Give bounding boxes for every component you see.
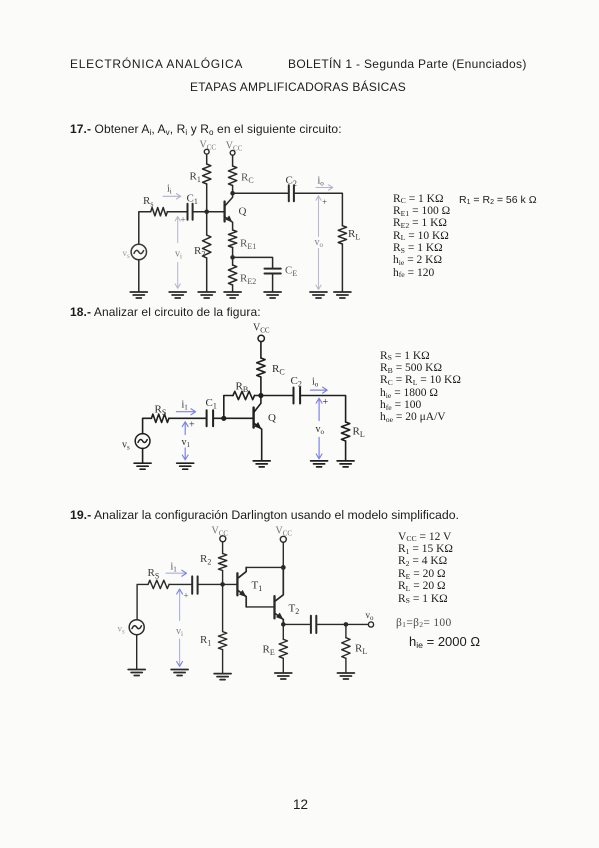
label vs [123,248,131,260]
svg-text:vo: vo [366,610,375,622]
svg-text:+: + [189,420,195,431]
label RS 18 [155,404,167,418]
label Vcc 2 [226,141,243,153]
node rail [281,565,286,570]
arrow vo [316,196,321,290]
value label R1 = 15 KOhm [398,543,453,555]
label vo 18 [316,424,325,436]
capacitor CE [265,269,281,274]
node emitter T2 [281,622,286,627]
value label hoe = 20 uA/V [380,411,446,423]
resistor RE 19 [279,624,287,672]
svg-text:vi: vi [176,626,183,638]
vo terminal [368,622,373,627]
value label RE2 = 1 KOhm [393,217,447,229]
svg-text:R1: R1 [190,171,201,185]
transistor T2 [275,567,284,624]
wire source to Rs [143,418,152,434]
wire Rs to C1 [169,417,206,419]
svg-text:R2: R2 [194,245,205,259]
arrow i1 [176,409,195,415]
label plus vi 19 [184,591,189,601]
wire CE to ground [272,275,274,292]
label C1 [187,193,198,207]
source vs 18 [135,434,150,449]
Vcc terminal 1 [204,149,209,154]
label v1 18 [182,437,191,449]
node base [221,416,226,421]
resistor RB [233,391,261,399]
label vi 19 [176,626,183,638]
label T1 19 [252,580,263,594]
ground (vs 18) [134,463,151,469]
label plus v1 18 [189,420,195,431]
problem 17 statement [70,122,342,136]
capacitor C2 18 [294,388,301,404]
transistor Q 18 [254,396,262,461]
capacitor C1 19 [192,576,197,593]
resistor RL 19 [342,624,350,672]
ground (vs 19) [128,670,145,676]
svg-text:VCC: VCC [253,323,270,335]
value label RL = 10 KOhm [393,230,449,242]
svg-text:+: + [323,397,329,408]
svg-text:+: + [184,591,189,601]
label vo [315,237,324,249]
wire source to Rs [137,584,148,619]
header left [70,57,243,71]
label C1 18 [206,397,217,411]
node collector [230,191,235,196]
page number [293,797,308,812]
label Q 18 [268,412,276,424]
ground (vo) [310,292,327,298]
value label hfe = 100 [380,399,421,411]
svg-text:C1: C1 [187,193,198,207]
problem 19 statement [70,508,459,522]
svg-text:RL: RL [353,426,365,440]
label RB 18 [236,381,249,395]
node collector 18 [258,393,263,398]
svg-text:VCC: VCC [212,526,229,538]
svg-text:io: io [312,377,319,389]
CIRCUIT 18 SVG [110,320,375,475]
source vs 19 [129,620,144,635]
svg-text:VCC: VCC [276,526,293,538]
label Vcc 18 [253,323,270,335]
label C2 [286,175,297,189]
ground (source) [130,292,147,298]
wire C1 to base T1 [199,583,238,585]
label RL 19 [355,643,367,657]
source vs [131,244,146,259]
resistor RC 18 [257,342,265,396]
wire emitter to C out [283,623,309,625]
label R2 [194,245,205,259]
svg-text:v1: v1 [182,437,191,449]
value label hie = 2 KOhm [393,254,442,266]
wire C1 to base [214,417,254,419]
svg-text:i1: i1 [171,562,178,574]
ground (vo 18) [311,461,328,467]
wire Rs to C1 [167,211,186,213]
header right [288,57,527,71]
wire C2 to RL [301,396,346,423]
ground (RE 19) [275,673,292,679]
resistor R2 19 [218,542,226,585]
label vs 18 [122,440,130,452]
arrow io [316,185,333,190]
arrow vi [175,217,180,289]
Vcc terminal 18 [258,335,264,341]
wire vs to ground [136,635,138,669]
node base T1 [220,582,225,587]
value label R1 = R2 = 56 k Ohm [459,194,537,206]
wire T1 emitter to T2 base [246,606,273,608]
ground (RL 19) [337,673,354,679]
label plus vo 18 [323,397,329,408]
wire C2 to RL [295,193,343,226]
svg-text:vo: vo [316,424,325,436]
arrow vi 19 [177,589,183,666]
label RE2 [240,273,256,287]
svg-text:RE: RE [263,644,275,658]
svg-text:vi: vi [175,249,182,261]
wire Rs to C1 [169,583,191,585]
svg-text:+: + [322,197,327,207]
resistor RE1 [228,230,236,257]
svg-text:ii: ii [167,184,172,196]
svg-text:i1: i1 [182,400,189,412]
label CE [285,265,297,279]
ground (RL 18) [337,461,354,467]
svg-text:RE1: RE1 [240,238,256,252]
value label RB = 500 KOhm [380,362,442,374]
resistor Rs 19 [148,580,169,588]
label plus vi [181,215,186,225]
value label hie = 2000 Ohm [409,634,480,649]
ground (R2) [198,292,215,298]
svg-text:vo: vo [315,237,324,249]
wire collector to C2 [233,192,288,194]
Vcc terminal 2 [230,150,235,155]
value label RE1 = 100 Ohm [393,205,450,217]
svg-text:RS: RS [148,567,160,581]
wire C1 to base [194,211,225,213]
resistor R1 19 [218,584,226,673]
resistor RL [338,226,346,292]
resistor RC [228,155,236,193]
resistor R1 [203,154,211,212]
wire C out to vo [317,623,368,625]
arrow v1 [182,422,188,460]
svg-text:io: io [318,176,325,188]
wire RB branch [224,396,233,419]
ground (vi) [169,292,186,298]
label vs 19 [118,624,126,636]
CIRCUIT 19 SVG [108,520,383,682]
label R2 19 [200,553,211,567]
value label VCC = 12 V [398,531,451,543]
svg-text:vs: vs [123,248,131,260]
label C2 18 [291,375,302,389]
svg-text:RC: RC [272,363,285,377]
label RC 18 [272,363,285,377]
wire Vcc to rail node [282,542,284,567]
value label R2 = 4 KOhm [398,555,447,567]
wire tap to CE [233,257,273,267]
ground (RL) [334,292,351,298]
arrow ii [163,194,181,199]
svg-text:CE: CE [285,265,297,279]
svg-text:C2: C2 [286,175,297,189]
value label hfe = 120 [393,267,434,279]
CIRCUIT 17 SVG [110,136,370,304]
ground (v1 18) [177,463,194,469]
label T2 19 [289,603,300,617]
ground (RE2) [224,292,241,298]
label R1 [190,171,201,185]
label ii [167,184,172,196]
label vi [175,249,182,261]
svg-text:RB: RB [236,381,249,395]
resistor Rs 18 [151,414,169,422]
label RE1 [240,238,256,252]
svg-text:C1: C1 [206,397,217,411]
node vo branch [344,622,349,627]
svg-text:Q: Q [239,206,247,218]
resistor RL 18 [341,422,349,460]
Vcc terminal 19a [220,536,226,542]
capacitor C2 [289,185,294,201]
top rail T1 collector to Vcc node [246,566,283,568]
node junction base/R1/R2 [204,209,209,214]
value label hie = 1800 Ohm [380,387,438,399]
transistor Q [225,193,233,230]
resistor RE2 [228,257,236,291]
value label beta1=beta2= 100 [396,617,452,629]
wire vs to ground [138,260,140,292]
node emitter tap [230,255,235,260]
label plus vo [322,197,327,207]
svg-text:+: + [181,215,186,225]
arrow i1 19 [166,570,186,576]
label Vcc 1 [200,140,217,152]
ground (CE) [264,292,281,298]
ground (emitter 18) [253,461,270,467]
label RL [348,228,360,242]
svg-text:RL: RL [348,228,360,242]
label i1 18 [182,400,189,412]
resistor Rs [151,208,168,216]
ground (R1 19) [214,674,231,680]
svg-text:VCC: VCC [226,141,243,153]
label Vcc 19b [276,526,293,538]
value label RE = 20 Ohm [398,568,446,580]
value label RL = 20 Ohm [398,580,446,592]
label io 18 [312,377,319,389]
svg-text:Rs: Rs [143,195,153,209]
value label RS = 1 KOhm [398,593,448,605]
label vo 19 [366,610,375,622]
ground (vi 19) [171,670,188,676]
label RE 19 [263,644,275,658]
label Rs 19 [148,567,160,581]
transistor T1 [237,567,246,607]
wire collector to C2 [261,395,292,397]
svg-text:vs: vs [122,440,130,452]
arrow vo 18 [316,398,322,459]
wire source to Rs [139,212,151,245]
capacitor C out 19 [311,616,316,633]
value label RC = RL = 10 KOhm [380,374,461,386]
problem 18 statement [70,305,261,319]
svg-text:Q: Q [268,412,276,424]
svg-text:RS: RS [155,404,167,418]
label io [318,176,325,188]
value label RC = 1 KOhm [393,193,444,205]
svg-text:R2: R2 [200,553,211,567]
Vcc terminal 19b [280,536,286,542]
svg-text:C2: C2 [291,375,302,389]
wire vs to ground [142,448,144,462]
svg-text:R1: R1 [200,634,211,648]
svg-text:VCC: VCC [200,140,217,152]
label RC [241,172,254,186]
svg-text:T1: T1 [252,580,263,594]
value label RS = 1 KOhm [393,242,443,254]
value label RS = 1 KOhm [380,350,430,362]
label R1 19 [200,634,211,648]
label i1 19 [171,562,178,574]
arrow io 18 [311,387,328,393]
svg-text:RL: RL [355,643,367,657]
label Q [239,206,247,218]
capacitor C1 [188,204,193,220]
subtitle [190,80,406,94]
svg-text:vs: vs [118,624,126,636]
label Vcc 19a [212,526,229,538]
svg-text:T2: T2 [289,603,300,617]
resistor R2 [203,212,211,292]
capacitor C1 18 [207,410,214,426]
svg-text:RC: RC [241,172,254,186]
label Rs [143,195,153,209]
svg-text:RE2: RE2 [240,273,256,287]
label RL 18 [353,426,365,440]
